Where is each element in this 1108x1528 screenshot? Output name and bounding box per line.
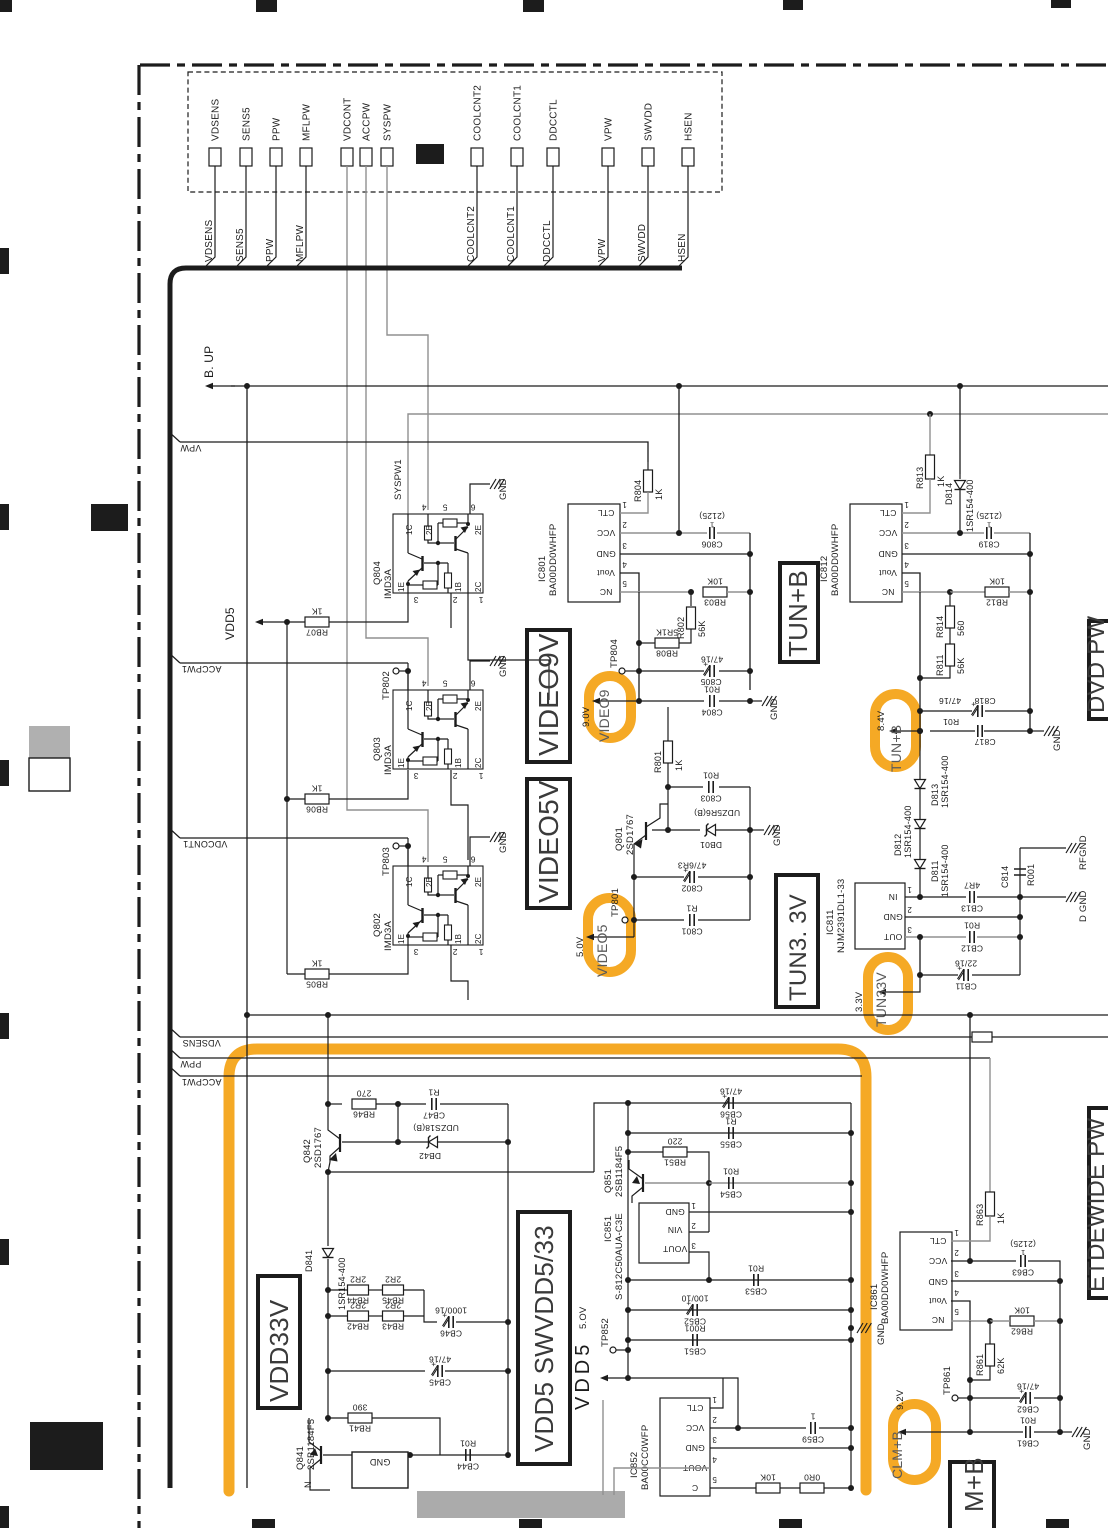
- svg-text:BA00CC0WFP: BA00CC0WFP: [640, 1425, 651, 1490]
- junction C804 row: [636, 698, 642, 704]
- svg-text:PPW: PPW: [180, 1059, 201, 1069]
- svg-text:IMD3A: IMD3A: [383, 745, 394, 775]
- svg-text:GND: GND: [498, 478, 509, 500]
- svg-text:1SR154-400: 1SR154-400: [965, 479, 975, 532]
- svg-text:NC: NC: [882, 587, 895, 597]
- svg-text:CB59: CB59: [802, 1435, 824, 1445]
- svg-text:VCC: VCC: [597, 528, 616, 538]
- junction x970 y1432: [967, 1429, 973, 1435]
- svg-text:D841: D841: [304, 1250, 314, 1272]
- junction R844 row: [325, 1287, 331, 1293]
- resistor R843 2R2: [383, 1311, 404, 1321]
- svg-text:MFLPW: MFLPW: [302, 104, 313, 141]
- svg-text:VDD5: VDD5: [572, 1341, 594, 1410]
- svg-text:GND: GND: [369, 1457, 390, 1467]
- svg-text:R1: R1: [428, 1087, 439, 1097]
- svg-text:BA00DD0WHFP: BA00DD0WHFP: [830, 524, 841, 596]
- svg-text:1K: 1K: [996, 1213, 1006, 1224]
- svg-text:PPW: PPW: [265, 238, 276, 262]
- svg-text:CB12: CB12: [961, 944, 983, 954]
- svg-text:CB53: CB53: [745, 1287, 767, 1297]
- wire HSEN pin to bus: [677, 166, 688, 268]
- wire D814 to VCC row: [959, 490, 961, 533]
- diode D812 1SR154-400: [915, 820, 926, 829]
- svg-text:SWVDD: SWVDD: [644, 103, 655, 141]
- resistor R862 10K: [1010, 1316, 1034, 1326]
- svg-text:C819: C819: [978, 540, 999, 550]
- svg-text:R01: R01: [964, 920, 980, 930]
- svg-text:IC852: IC852: [629, 1452, 640, 1478]
- svg-text:1: 1: [691, 1201, 696, 1210]
- svg-text:47/6R3: 47/6R3: [678, 860, 707, 870]
- svg-text:OUT: OUT: [884, 932, 903, 942]
- svg-text:CB46: CB46: [440, 1329, 462, 1339]
- svg-text:IC861: IC861: [869, 1284, 880, 1310]
- net entry VDSENS from left border: [168, 1026, 180, 1037]
- wire VDSENS pin to bus: [204, 166, 215, 268]
- wire R811 to Vout rail: [920, 666, 950, 678]
- svg-text:2: 2: [691, 1221, 696, 1230]
- transistor Q842 2SD1767: [339, 1134, 341, 1152]
- svg-text:1: 1: [622, 500, 627, 509]
- svg-text:VDSENS: VDSENS: [204, 220, 215, 262]
- wire C855 row y1133: [628, 1132, 851, 1134]
- svg-text:R801: R801: [653, 751, 663, 773]
- resistor 10K bottom: [756, 1483, 780, 1493]
- svg-text:R804: R804: [633, 480, 643, 502]
- diode D814 1SR154-400: [959, 474, 961, 479]
- TUN3.3V output arrow 3.3V: [890, 975, 920, 992]
- svg-text:5: 5: [712, 1475, 717, 1484]
- junction x628 y1103: [625, 1100, 631, 1106]
- wire Q801 emitter rail down: [633, 852, 635, 920]
- svg-text:2B: 2B: [425, 525, 434, 535]
- svg-text:HSEN: HSEN: [684, 112, 695, 141]
- transistor Q841 2SB1184F5: [320, 1446, 322, 1464]
- svg-text:CTL: CTL: [930, 1236, 947, 1246]
- svg-text:2B: 2B: [425, 701, 434, 711]
- wire gray rail y414: [408, 414, 1108, 514]
- gray footer bar: [417, 1491, 625, 1518]
- svg-text:6: 6: [470, 502, 475, 512]
- transistor block Q804 IMD3A: [393, 514, 483, 593]
- wire DDCCTL pin to bus: [542, 166, 553, 268]
- svg-text:R814: R814: [935, 616, 945, 638]
- svg-text:1K: 1K: [311, 784, 322, 794]
- connector pin COOLCNT2: [471, 148, 483, 166]
- wire IC801 Vout pin4: [620, 573, 639, 592]
- svg-text:GND: GND: [876, 1323, 887, 1345]
- test point TP852: [610, 1347, 616, 1353]
- svg-text:C: C: [692, 1483, 698, 1493]
- svg-text:RB42: RB42: [347, 1322, 369, 1332]
- svg-text:R01: R01: [1020, 1415, 1036, 1425]
- connector pin DDCCTL: [547, 148, 559, 166]
- svg-text:VCC: VCC: [929, 1256, 948, 1266]
- svg-text:Vout: Vout: [879, 568, 897, 578]
- junction C805 row x750: [747, 668, 753, 674]
- wire RFGND row: [1020, 847, 1066, 849]
- svg-text:D814: D814: [944, 483, 954, 505]
- connector pin HSEN: [682, 148, 694, 166]
- svg-text:C804: C804: [701, 708, 722, 718]
- junction zener row x750: [747, 827, 753, 833]
- wire IC851 VIN pin2: [689, 1231, 709, 1233]
- svg-text:DB01: DB01: [700, 840, 722, 850]
- boxed label VDD33V: [258, 1276, 300, 1408]
- svg-text:R01: R01: [723, 1166, 739, 1176]
- svg-text:2R2: 2R2: [350, 1301, 366, 1311]
- svg-text:HSEN: HSEN: [677, 233, 688, 262]
- registration mark bottom b4: [1046, 1519, 1069, 1528]
- capacitor C817 R01: [977, 725, 979, 737]
- svg-text:2C: 2C: [474, 933, 483, 944]
- wire ladder merge: [424, 1290, 437, 1322]
- svg-text:ACCPW: ACCPW: [362, 102, 373, 141]
- test point TP802: [393, 668, 399, 674]
- svg-text:3: 3: [954, 1269, 959, 1278]
- registration mark left l2: [0, 504, 9, 530]
- junction VCC x960: [957, 530, 963, 536]
- junction x851 y1183: [848, 1180, 854, 1186]
- svg-text:4R7: 4R7: [964, 880, 980, 890]
- test point TP803: [393, 843, 399, 849]
- boxed label VDD5 SWVDD5/33: [518, 1212, 570, 1464]
- junction x970 y1398: [967, 1395, 973, 1401]
- svg-text:SENS5: SENS5: [235, 228, 246, 262]
- capacitor C802 47/6R3 electrolytic: [689, 871, 691, 883]
- junction R842 row: [325, 1313, 331, 1319]
- capacitor C855 R1: [728, 1127, 730, 1139]
- svg-text:1B: 1B: [454, 582, 463, 592]
- junction x398 y1104: [395, 1101, 401, 1107]
- svg-text:UDZ5R6(B): UDZ5R6(B): [694, 808, 740, 818]
- svg-text:N: N: [303, 1481, 313, 1488]
- svg-text:VDD33V: VDD33V: [264, 1299, 294, 1402]
- junction TP802 node: [405, 668, 411, 674]
- svg-text:Q841: Q841: [295, 1446, 306, 1470]
- wire IC861 NC / R862 row: [951, 1320, 990, 1322]
- svg-text:10K: 10K: [1014, 1306, 1030, 1316]
- wire right rail x1020: [1019, 848, 1021, 975]
- registration mark top tl: [0, 0, 12, 12]
- svg-text:RB05: RB05: [306, 980, 328, 990]
- svg-text:5R1K: 5R1K: [656, 628, 678, 638]
- wire zener row y830: [652, 829, 700, 831]
- svg-text:CB51: CB51: [684, 1347, 706, 1357]
- wire IC861 GND row: [951, 1280, 1060, 1282]
- boxed label VIDEO5V: [527, 779, 570, 908]
- svg-text:56K: 56K: [697, 620, 707, 637]
- wire R804 to IC801 CTL pin1: [620, 492, 648, 513]
- svg-text:DB42: DB42: [419, 1151, 441, 1161]
- svg-text:6: 6: [470, 854, 475, 864]
- junction x1060 y1398: [1057, 1395, 1063, 1401]
- junction x851 y1280: [848, 1277, 854, 1283]
- svg-text:RFGND: RFGND: [1078, 835, 1089, 870]
- svg-text:1B: 1B: [454, 934, 463, 944]
- registration mark bottom b2: [519, 1519, 542, 1528]
- svg-text:RB62: RB62: [1011, 1327, 1033, 1337]
- junction x970 y1261: [967, 1258, 973, 1264]
- wire vertical rail x287: [286, 622, 288, 974]
- svg-text:DDCCTL: DDCCTL: [542, 220, 553, 262]
- svg-text:CB55: CB55: [720, 1140, 742, 1150]
- svg-text:5: 5: [622, 579, 627, 588]
- svg-text:SENS5: SENS5: [242, 107, 253, 141]
- svg-text:1: 1: [710, 520, 714, 529]
- registration mark top t1: [256, 0, 277, 12]
- capacitor C856 47/16 electrolytic: [728, 1097, 730, 1109]
- resistor R802 56K: [690, 592, 692, 606]
- svg-text:9.2V: 9.2V: [895, 1389, 906, 1410]
- svg-text:2: 2: [452, 595, 457, 605]
- capacitor C803 R01: [708, 781, 710, 793]
- svg-text:1SR154-400: 1SR154-400: [940, 755, 950, 808]
- gray/white legend swatch left: [29, 726, 70, 758]
- svg-text:1C: 1C: [405, 524, 414, 535]
- boxed label bottom +B (cut): [950, 1462, 994, 1528]
- wire right rail x851: [850, 1103, 852, 1345]
- diode D841 1SR154-400: [323, 1249, 334, 1258]
- svg-text:1: 1: [810, 1411, 815, 1421]
- svg-text:2: 2: [954, 1248, 959, 1257]
- registration mark top t2: [523, 0, 544, 12]
- svg-text:CB11: CB11: [955, 982, 977, 992]
- wire Q802 pin3 to R805 row: [329, 945, 408, 974]
- svg-text:VDD5 SWVDD5/33: VDD5 SWVDD5/33: [529, 1225, 559, 1452]
- registration mark left l5: [0, 1239, 9, 1265]
- svg-text:47/16: 47/16: [939, 696, 961, 706]
- wire IC852 VOUT row (gray): [614, 1468, 710, 1495]
- svg-text:D811: D811: [930, 860, 940, 882]
- svg-text:4: 4: [421, 678, 426, 688]
- svg-text:3: 3: [413, 771, 418, 781]
- wire lower rail y1015: [247, 1014, 1108, 1016]
- black index rectangle lower left: [30, 1422, 103, 1470]
- capacitor C818 47/16: [917, 708, 923, 714]
- boxed label right edge CYCLD (cut): [1089, 621, 1108, 719]
- wire C845 row y1371: [328, 1370, 425, 1372]
- diode D813 1SR154-400: [915, 780, 926, 789]
- wire Vout rail x920 down: [919, 592, 921, 731]
- svg-text:VPW: VPW: [180, 443, 201, 453]
- test point TP804: [619, 668, 625, 674]
- junction x508 y1455: [505, 1452, 511, 1458]
- junction x628 y1152: [625, 1149, 631, 1155]
- wire vertical x970 down to IC861 VCC: [969, 1015, 971, 1260]
- svg-text:NC: NC: [932, 1315, 945, 1325]
- resistor R841 390: [348, 1413, 372, 1423]
- svg-text:RB06: RB06: [306, 805, 328, 815]
- wire Vout rail x639 down: [638, 592, 640, 701]
- svg-text:COOLCNT1: COOLCNT1: [506, 206, 517, 262]
- capacitor C851 R001: [692, 1334, 694, 1346]
- ground mid rail: [848, 1325, 854, 1331]
- junction B.UP x247: [244, 383, 250, 389]
- svg-text:100/10: 100/10: [681, 1293, 708, 1303]
- svg-text:Q803: Q803: [372, 737, 383, 761]
- wire IC811 OUT row: [905, 936, 966, 938]
- net entry VDCONT1 from left border: [168, 827, 180, 838]
- junction GND x750: [747, 551, 753, 557]
- svg-text:3: 3: [622, 541, 627, 550]
- svg-text:9.0V: 9.0V: [581, 706, 592, 727]
- svg-text:R001: R001: [1026, 864, 1036, 886]
- svg-text:R861: R861: [975, 1354, 985, 1376]
- svg-text:5.0V: 5.0V: [575, 936, 586, 957]
- svg-text:CB62: CB62: [1017, 1405, 1039, 1415]
- page frame dash-dot top border: [140, 63, 1108, 66]
- orange ring TUN+B: [875, 694, 916, 767]
- wire IC852 GND row: [710, 1447, 851, 1449]
- junction y1015 x247: [244, 1012, 250, 1018]
- wire R851 row y1152: [628, 1151, 663, 1153]
- svg-text:TP801: TP801: [610, 888, 621, 917]
- resistor R804 1K: [647, 462, 649, 470]
- svg-text:GND: GND: [665, 1207, 685, 1217]
- svg-text:VDD5: VDD5: [223, 607, 237, 640]
- svg-text:4: 4: [622, 560, 627, 569]
- junction x410 y1455: [407, 1452, 413, 1458]
- svg-text:4: 4: [421, 502, 426, 512]
- capacitor C852 100/10 electrolytic: [692, 1304, 694, 1316]
- svg-text:270: 270: [357, 1089, 372, 1099]
- svg-text:3: 3: [907, 925, 912, 934]
- junction C802 row: [631, 874, 637, 880]
- svg-text:VDCONT: VDCONT: [343, 98, 354, 141]
- svg-text:R01: R01: [703, 770, 719, 780]
- svg-text:3: 3: [691, 1241, 696, 1250]
- svg-text:TUN+B: TUN+B: [888, 725, 904, 772]
- CLM+B output arrow 9.2V: [901, 1431, 970, 1433]
- svg-text:220: 220: [668, 1137, 683, 1147]
- svg-text:VIDEO9: VIDEO9: [596, 689, 612, 742]
- wire diode chain vertical x920: [919, 731, 921, 897]
- svg-text:TP804: TP804: [609, 639, 620, 668]
- svg-text:R1: R1: [686, 903, 697, 913]
- svg-text:22/16: 22/16: [955, 958, 977, 968]
- wire Q802 pin2 out: [451, 945, 468, 1000]
- svg-text:RB43: RB43: [382, 1322, 404, 1332]
- svg-text:6: 6: [470, 678, 475, 688]
- diode D811 1SR154-400: [915, 860, 926, 869]
- svg-text:VIDEO5: VIDEO5: [594, 924, 610, 977]
- regulator IC811 NJM2391DL1-33: [855, 883, 905, 949]
- registration mark left l3: [0, 760, 9, 786]
- wire x508 down: [507, 1104, 509, 1456]
- svg-text:10K: 10K: [989, 577, 1005, 587]
- svg-text:VIN: VIN: [668, 1225, 683, 1235]
- wire Q842 base row y1142: [342, 1141, 398, 1143]
- svg-text:CLM+B: CLM+B: [889, 1431, 905, 1479]
- svg-text:(2125): (2125): [699, 511, 725, 521]
- capacitor C811 22/16 electrolytic: [917, 972, 923, 978]
- orange ring VIDEO9: [589, 676, 631, 738]
- junction R806 row: [284, 796, 290, 802]
- svg-text:C814: C814: [1000, 866, 1010, 888]
- svg-text:5: 5: [954, 1307, 959, 1316]
- capacitor C862 47/16 electrolytic: [1025, 1392, 1027, 1404]
- svg-text:62K: 62K: [996, 1357, 1006, 1374]
- junction x851 y1310: [848, 1307, 854, 1313]
- svg-text:1: 1: [1021, 1248, 1025, 1257]
- svg-text:3: 3: [413, 595, 418, 605]
- resistor R811 56K: [949, 628, 951, 644]
- svg-text:RB51: RB51: [664, 1158, 686, 1168]
- junction R803 row x691: [688, 589, 694, 595]
- svg-text:2: 2: [904, 520, 909, 529]
- svg-text:TP802: TP802: [381, 671, 392, 700]
- wire PPW rail y1055: [180, 1057, 990, 1059]
- VDD5 output arrow 5.0V: [603, 1377, 628, 1379]
- resistor R842 2R2: [348, 1311, 369, 1321]
- svg-text:1: 1: [954, 1228, 959, 1237]
- svg-text:GND: GND: [596, 549, 616, 559]
- svg-text:1: 1: [478, 595, 483, 605]
- wire SYSPW (gray): [387, 166, 428, 510]
- junction x1060 y1321: [1057, 1318, 1063, 1324]
- resistor R813 1K: [926, 455, 935, 479]
- ground zener row: [750, 829, 764, 831]
- capacitor C805 47/16 electrolytic: [709, 665, 711, 677]
- junction x851 y1428: [848, 1425, 854, 1431]
- junction x628 y1280: [625, 1277, 631, 1283]
- wire R801 down: [667, 763, 669, 830]
- svg-text:5: 5: [442, 854, 447, 864]
- svg-text:Q804: Q804: [372, 561, 383, 585]
- svg-text:VDCONT1: VDCONT1: [183, 839, 227, 849]
- svg-text:2SB1184F5: 2SB1184F5: [306, 1419, 317, 1470]
- svg-text:GND: GND: [498, 655, 509, 677]
- wire IC801 NC pin5 / R803 row: [620, 591, 691, 593]
- svg-text:1K: 1K: [674, 760, 684, 771]
- regulator IC861 BA00DD0WHFP: [900, 1232, 952, 1330]
- wire right rail x750: [749, 533, 751, 690]
- svg-text:GND: GND: [772, 824, 783, 846]
- transistor block Q803 IMD3A: [393, 690, 483, 769]
- junction TUN+B row: [917, 728, 923, 734]
- resistor 0R0 bottom: [800, 1483, 824, 1493]
- junction Vout rail R808: [636, 640, 642, 646]
- junction x709 y1183: [706, 1180, 712, 1186]
- connector pin COOLCNT1: [511, 148, 523, 166]
- connector pin SWVDD: [642, 148, 654, 166]
- svg-text:UDZS18(B): UDZS18(B): [413, 1123, 459, 1133]
- svg-text:1E: 1E: [397, 758, 406, 768]
- wire SWVDD pin to bus: [637, 166, 648, 268]
- registration mark left l1: [0, 248, 9, 274]
- svg-text:1: 1: [478, 947, 483, 957]
- svg-text:47/16: 47/16: [429, 1354, 451, 1364]
- wire VDSENS rail y1035: [180, 1036, 1108, 1038]
- svg-text:CB47: CB47: [423, 1111, 445, 1121]
- wire SENS5 pin to bus: [235, 166, 246, 268]
- wire B.UP rail: [231, 385, 1108, 387]
- svg-text:2E: 2E: [474, 701, 483, 711]
- svg-text:1SR154-400: 1SR154-400: [940, 844, 950, 897]
- svg-text:2: 2: [622, 520, 627, 529]
- svg-text:GND: GND: [883, 912, 903, 922]
- net entry VPW from left border: [168, 431, 180, 442]
- svg-text:47/16: 47/16: [701, 654, 723, 664]
- junction x709 y1280: [706, 1277, 712, 1283]
- junction gray rail x930: [927, 411, 933, 417]
- capacitor C847 R1: [431, 1098, 433, 1110]
- svg-text:47/16: 47/16: [720, 1086, 742, 1096]
- svg-text:S-812C50AUA-C3E: S-812C50AUA-C3E: [614, 1213, 625, 1300]
- junction x738 y1428: [735, 1425, 741, 1431]
